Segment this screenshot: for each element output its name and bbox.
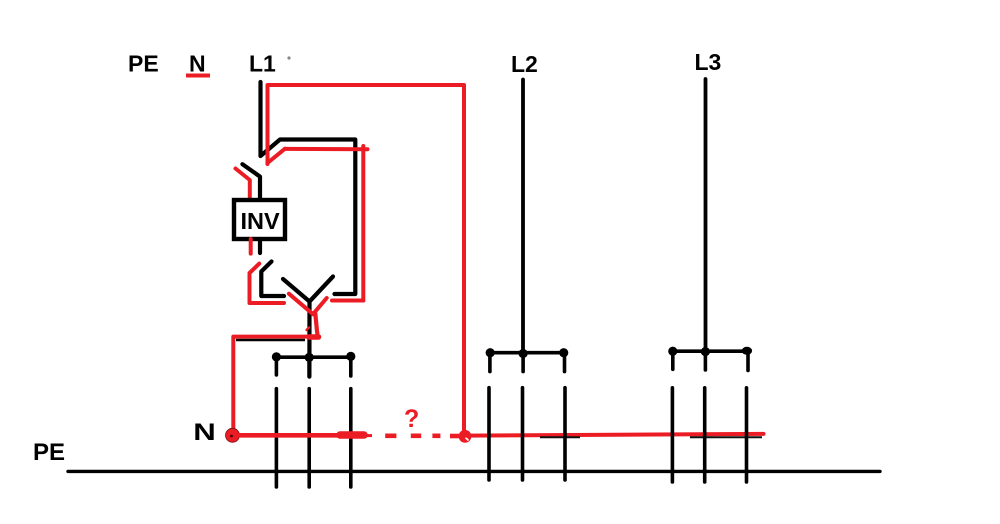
switch blade red (upper, beside L1): [268, 149, 286, 163]
wire PE conductor: [68, 470, 880, 473]
wire black sliver under red near junction: [236, 339, 305, 341]
wire L2 phase lead: [521, 80, 525, 353]
label ? (unknown link): [404, 405, 419, 433]
svg-text:PE: PE: [33, 439, 65, 466]
junction Y red (transfer point): [289, 294, 327, 336]
label L2: [511, 51, 538, 77]
svg-text:N: N: [193, 418, 216, 445]
label N (top, red underlined): [186, 51, 210, 77]
wire L1 phase lead (black) with open switch blade to inverter bypass: [261, 82, 356, 294]
wire black slivers under red N bus: [540, 436, 762, 438]
switch S1 blade black (above INV): [242, 164, 260, 199]
busbar B3 (load group 3): [668, 347, 752, 371]
switch S1 blade red (above INV): [236, 169, 250, 200]
inverter U1 box INV: [234, 200, 285, 239]
svg-text:PE: PE: [128, 51, 159, 77]
svg-text:L1: L1: [249, 51, 276, 77]
wire red INV output lead (below box): [249, 239, 253, 254]
wire red bypass run to right of INV: [285, 146, 368, 301]
label L1: [249, 51, 276, 77]
node junction dot (red, at red riser): [459, 430, 472, 443]
label N (node N, bottom): [193, 418, 216, 445]
wire red N conductor: down from L1 area, across top, down right side: [268, 85, 465, 430]
stray dot artifact: [287, 56, 290, 59]
label PE (bottom left): [33, 439, 65, 466]
wire red from junction to node N: [233, 337, 319, 430]
svg-text:INV: INV: [241, 208, 281, 234]
busbar B1 (load group 1): [272, 352, 356, 377]
wire red N bus (right of junction): [465, 434, 764, 436]
wire red N dashed gap segments: [385, 433, 459, 438]
svg-text:L3: L3: [695, 49, 722, 75]
load feeder wires under busbar B1: [276, 389, 350, 487]
busbar B2 (load group 2): [486, 348, 569, 372]
svg-text:?: ?: [404, 405, 419, 433]
node N junction dot (red): [226, 428, 240, 442]
label PE (top left): [128, 51, 159, 77]
switch S2 blade red (below INV) down to junction: [250, 264, 285, 303]
wire black INV output lead (below box): [258, 239, 262, 253]
switch S2 blade black (below INV) down to junction: [261, 262, 284, 297]
junction Y black (transfer point): [283, 277, 333, 377]
label L3: [695, 49, 722, 75]
load feeder wires under busbar B2: [489, 388, 565, 480]
svg-text:N: N: [189, 51, 206, 77]
wire red N bus solid (left of gap): [236, 433, 372, 438]
svg-text:L2: L2: [511, 51, 538, 77]
load feeder wires under busbar B3: [672, 388, 746, 482]
wire L3 phase lead: [704, 79, 708, 352]
